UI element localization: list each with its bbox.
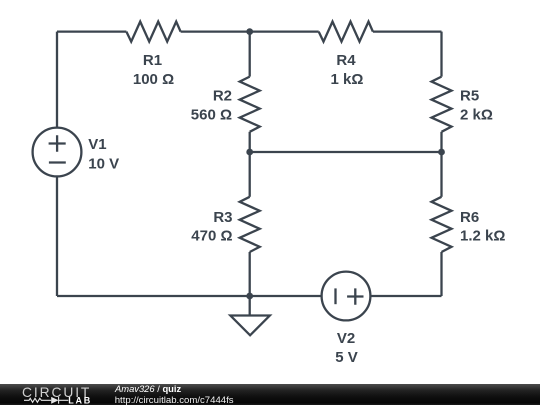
resistor R3 zigzag (240, 197, 260, 252)
node dot bottom (ground junction) (246, 293, 253, 300)
svg-text:LAB: LAB (68, 395, 92, 405)
svg-text:2 kΩ: 2 kΩ (460, 107, 493, 124)
wire right vertical middle node to R6 (440, 152, 442, 197)
V2 minus bar (334, 288, 336, 304)
resistor R6 zigzag (432, 197, 452, 252)
voltage source V1 circle (33, 128, 82, 177)
svg-text:1 kΩ: 1 kΩ (331, 71, 364, 88)
resistor R4 zigzag (319, 22, 373, 42)
wire bottom horizontal left segment (57, 295, 322, 297)
node dot top (R1/R4/R2 junction) (246, 28, 253, 35)
svg-text:560 Ω: 560 Ω (191, 107, 232, 124)
node dot middle right (R5/R6 junction) (438, 149, 445, 156)
svg-text:V1: V1 (88, 136, 106, 153)
wire left vertical upper (corner down to V1 top) (56, 32, 58, 128)
V1 plus sign (49, 135, 66, 151)
voltage source V2 circle (322, 272, 371, 321)
wire bottom horizontal right segment (370, 295, 441, 297)
wire middle vertical from top node to R2 (249, 32, 251, 77)
svg-text:R1: R1 (143, 52, 162, 69)
svg-text:Amav326 / quiz: Amav326 / quiz (114, 383, 181, 394)
svg-text:1.2 kΩ: 1.2 kΩ (460, 228, 505, 245)
wire middle vertical R3 to bottom node (249, 252, 251, 296)
wire ground stem (249, 296, 251, 316)
wire middle horizontal between nodes (250, 151, 442, 153)
wire top middle from R1 to R4 (181, 30, 319, 32)
wire middle vertical node to R3 (249, 152, 251, 197)
V2 plus sign (347, 288, 363, 304)
resistor R2 zigzag (240, 77, 260, 132)
svg-text:R4: R4 (336, 52, 356, 69)
wire top-left horizontal from left corner to R1 (57, 30, 126, 32)
svg-text:470 Ω: 470 Ω (191, 228, 232, 245)
svg-text:R6: R6 (460, 209, 479, 226)
svg-text:100 Ω: 100 Ω (133, 71, 174, 88)
resistor R1 zigzag (126, 22, 180, 42)
svg-text:http://circuitlab.com/c7444fs: http://circuitlab.com/c7444fs (115, 395, 234, 405)
svg-text:10 V: 10 V (88, 155, 119, 172)
ground symbol triangle (230, 316, 269, 336)
logo diode triangle (51, 397, 58, 404)
svg-text:R5: R5 (460, 88, 479, 105)
resistor R5 zigzag (432, 77, 452, 132)
node dot middle left (R2/R3 junction) (246, 149, 253, 156)
V1 minus sign (49, 161, 66, 163)
svg-text:V2: V2 (337, 330, 355, 347)
svg-text:R2: R2 (213, 88, 232, 105)
wire right vertical R5 to middle node (440, 132, 442, 152)
wire left vertical lower (V1 bottom to bottom wire) (56, 176, 58, 296)
logo resistor-diode glyph (24, 397, 68, 404)
wire middle vertical R2 to middle node (249, 132, 251, 152)
wire right vertical top to R5 (440, 32, 442, 77)
svg-text:5 V: 5 V (335, 349, 358, 366)
wire right vertical R6 to bottom wire (440, 252, 442, 296)
wire top-right from R4 to right corner (373, 30, 442, 32)
svg-text:R3: R3 (213, 209, 232, 226)
